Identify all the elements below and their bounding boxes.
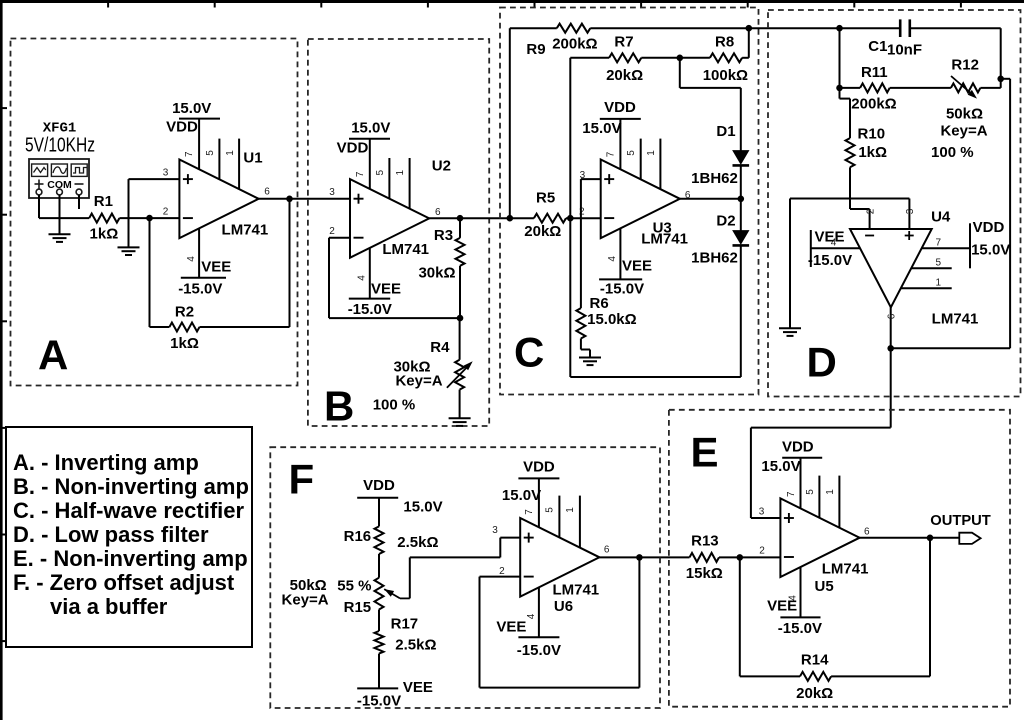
value D1 1BH62 <box>691 170 738 187</box>
svg-text:R8: R8 <box>715 33 734 50</box>
wire XFG1 + to R1 <box>39 217 89 219</box>
svg-text:R2: R2 <box>175 303 194 320</box>
wire R3 to node <box>459 266 461 318</box>
svg-text:2.5kΩ: 2.5kΩ <box>395 637 436 654</box>
svg-text:LM741: LM741 <box>222 222 269 239</box>
pin 1 number U4 <box>936 277 942 288</box>
pin 5 number U6 <box>545 507 556 513</box>
pin 3 number U2 <box>329 187 335 198</box>
svg-text:2: 2 <box>759 546 765 557</box>
VEE symbol U5 <box>780 616 820 618</box>
VDD label R16 <box>363 477 395 494</box>
label U3 LM741 <box>641 231 688 248</box>
U3 pin 4 wire <box>619 228 621 279</box>
value R4 30k&#937; <box>393 359 430 376</box>
svg-text:via a buffer: via a buffer <box>50 594 168 619</box>
value R10 1k&#937; <box>858 144 887 161</box>
U4 pin 7 wire <box>922 247 970 249</box>
wire feedback riser to output <box>289 199 291 327</box>
svg-text:LM741: LM741 <box>382 241 429 258</box>
svg-text:R11: R11 <box>861 64 888 81</box>
junction node R3/R4 <box>457 315 464 322</box>
wire feedback right riser <box>1009 79 1011 349</box>
svg-text:VDD: VDD <box>166 119 198 136</box>
junction node U5 output <box>927 535 934 542</box>
pin 7 number U3 <box>606 151 617 157</box>
svg-text:55 %: 55 % <box>337 577 371 594</box>
wire R1 to U1 pin 2 <box>119 217 179 219</box>
wire U2 feedback bottom <box>329 317 460 319</box>
label R11 <box>861 64 888 81</box>
section label D <box>807 339 837 386</box>
svg-text:5: 5 <box>805 489 816 495</box>
potentiometer R15 <box>375 578 384 610</box>
svg-text:VEE: VEE <box>201 258 231 275</box>
pin 2 number U5 <box>759 546 765 557</box>
U3 pin 7 wire <box>619 119 621 169</box>
label U4 LM741 <box>932 311 979 328</box>
wire R14 to output riser <box>831 675 930 677</box>
svg-text:100 %: 100 % <box>931 144 974 161</box>
svg-text:200kΩ: 200kΩ <box>851 96 896 113</box>
svg-text:1: 1 <box>936 277 942 288</box>
VDD value 15.0V U6 <box>502 487 541 504</box>
U2 pin 7 wire <box>369 139 371 189</box>
section F boundary box <box>270 447 660 708</box>
svg-text:1: 1 <box>565 507 576 513</box>
svg-text:6: 6 <box>435 207 441 218</box>
junction node feedback tap <box>997 76 1004 83</box>
svg-text:VEE: VEE <box>403 679 433 696</box>
svg-text:R15: R15 <box>344 599 372 616</box>
svg-text:D2: D2 <box>716 213 735 230</box>
svg-text:15.0V: 15.0V <box>582 120 621 137</box>
VDD symbol U2 <box>349 138 390 140</box>
wire U4 output to U5 pin 3 <box>751 428 891 518</box>
section D boundary box <box>768 10 1021 397</box>
potentiometer R12 <box>951 83 981 92</box>
wire R8 right riser <box>742 28 749 58</box>
label R12 Key=A <box>940 123 987 140</box>
svg-text:VDD: VDD <box>604 99 636 116</box>
svg-text:R7: R7 <box>614 33 633 50</box>
junction node top right of C <box>746 25 753 32</box>
label U1 <box>243 149 262 166</box>
svg-text:B. - Non-inverting amp: B. - Non-inverting amp <box>13 474 249 499</box>
op-amp U1 <box>179 160 258 239</box>
section label C <box>514 329 544 376</box>
svg-text:1kΩ: 1kΩ <box>170 335 199 352</box>
svg-text:2: 2 <box>865 208 876 214</box>
resistor R3 <box>456 238 465 266</box>
svg-text:30kΩ: 30kΩ <box>418 265 455 282</box>
label R17 <box>391 616 419 633</box>
VEE symbol U1 <box>181 277 226 279</box>
VEE symbol U2 <box>349 298 390 300</box>
label R15 <box>344 599 372 616</box>
wire XFG1 + terminal down <box>38 195 40 218</box>
pin 6 number U6 <box>604 545 610 556</box>
ground U1 pin 3 <box>118 247 140 255</box>
label R15 55 % <box>337 577 371 594</box>
svg-text:4: 4 <box>186 256 197 262</box>
svg-text:3: 3 <box>759 506 765 517</box>
value R13 15k&#937; <box>686 565 723 582</box>
svg-text:200kΩ: 200kΩ <box>552 36 597 53</box>
U6 pin 5 stub <box>558 496 560 538</box>
legend line E. - Non-inverting amp <box>13 546 248 571</box>
svg-text:Key=A: Key=A <box>282 592 329 609</box>
label R10 <box>858 125 886 142</box>
U5 pin 7 wire <box>800 458 802 509</box>
VDD value 15.0V U1 <box>172 100 211 117</box>
wire C1 right to corner <box>910 27 1001 29</box>
resistor R11 <box>860 83 890 92</box>
wire D1 to output node <box>740 166 742 199</box>
resistor R5 <box>534 214 566 223</box>
resistor R9 <box>557 24 591 33</box>
pin 7 number U2 <box>355 171 366 177</box>
svg-text:6: 6 <box>685 190 691 201</box>
wire R11 lead <box>840 87 861 89</box>
pin 3 number U6 <box>492 525 498 536</box>
label U5 <box>815 578 834 595</box>
label R2 <box>175 303 194 320</box>
svg-text:VEE: VEE <box>814 229 844 246</box>
resistor R2 <box>169 323 199 332</box>
svg-text:U5: U5 <box>815 578 834 595</box>
value R6 15.0k&#937; <box>587 311 637 328</box>
svg-text:Key=A: Key=A <box>940 123 987 140</box>
VEE label R17 <box>403 679 433 696</box>
VEE value -15.0V U6 <box>517 642 561 659</box>
junction node U5 pin 2 <box>737 554 744 561</box>
VEE value -15.0V U3 <box>600 281 644 298</box>
wire U2 output <box>429 217 534 219</box>
svg-text:R3: R3 <box>434 227 453 244</box>
junction node U6 output <box>636 554 643 561</box>
svg-text:1: 1 <box>646 150 657 156</box>
svg-text:OUTPUT: OUTPUT <box>930 513 991 529</box>
VDD value 15.0V R16 <box>403 499 442 516</box>
label R8 <box>715 33 734 50</box>
U2 pin 1 stub <box>409 158 411 209</box>
label U5 LM741 <box>822 560 869 577</box>
function generator XFG1 label <box>43 121 77 137</box>
svg-text:LM741: LM741 <box>641 231 688 248</box>
pin 5 number U3 <box>626 150 637 156</box>
wire R16 to R15 <box>378 554 380 578</box>
pin 2 number U6 <box>499 566 505 577</box>
VDD value 15.0V U2 <box>351 120 390 137</box>
svg-text:7: 7 <box>355 171 366 177</box>
wire output riser <box>929 538 931 677</box>
svg-text:VDD: VDD <box>363 477 395 494</box>
wire R4 to ground <box>459 390 461 419</box>
wire feedback down <box>739 557 741 676</box>
value C1 10nF <box>887 41 922 58</box>
wire R7 lead <box>570 57 609 59</box>
wire top net R9 to C1 <box>590 27 900 29</box>
svg-text:2: 2 <box>163 207 169 218</box>
svg-text:U1: U1 <box>243 149 262 166</box>
section label B <box>324 383 354 430</box>
ground XFG1 COM <box>49 234 71 242</box>
wire U1 pin 3 left <box>129 178 180 180</box>
svg-text:6: 6 <box>264 186 270 197</box>
svg-text:7: 7 <box>524 509 535 515</box>
label U3 <box>653 219 672 236</box>
svg-text:VDD: VDD <box>782 438 814 455</box>
section A boundary box <box>11 39 298 386</box>
svg-text:1kΩ: 1kΩ <box>858 144 887 161</box>
svg-text:VEE: VEE <box>622 258 652 275</box>
wire R6 to ground <box>581 339 590 358</box>
wire R15 to R17 <box>378 610 380 632</box>
svg-text:A: A <box>38 332 68 379</box>
wire feedback to R14 <box>740 675 800 677</box>
legend line C. - Half-wave rectifier <box>13 498 245 523</box>
wire pin 3 down to ground <box>128 179 130 247</box>
value R5 20k&#937; <box>524 223 561 240</box>
VEE symbol U6 <box>518 636 559 638</box>
pin 3 number U5 <box>759 506 765 517</box>
svg-text:5: 5 <box>936 257 942 268</box>
VEE label U5 <box>767 598 797 615</box>
svg-text:Key=A: Key=A <box>395 373 442 390</box>
resistor R7 <box>609 53 641 62</box>
wire U6 pin 2 left <box>480 576 521 578</box>
wire U4 pin 3 net <box>790 199 909 230</box>
svg-text:15kΩ: 15kΩ <box>686 565 723 582</box>
svg-text:C. - Half-wave rectifier: C. - Half-wave rectifier <box>13 498 245 523</box>
pin 4 number U1 <box>186 256 197 262</box>
wire pin 3 down to R6 <box>580 179 582 308</box>
value R17 2.5k&#937; <box>395 637 436 654</box>
capacitor C1 <box>900 19 910 37</box>
svg-text:15.0V: 15.0V <box>351 120 390 137</box>
value R9 200k&#937; <box>552 36 597 53</box>
label R14 <box>801 652 829 669</box>
pin 6 number U4 <box>886 313 897 319</box>
function generator XFG1 <box>29 159 89 198</box>
label R3 <box>434 227 453 244</box>
op-amp U3 <box>601 160 680 239</box>
junction node R11 left <box>836 85 843 92</box>
svg-text:4: 4 <box>526 613 537 619</box>
svg-text:B: B <box>324 383 354 430</box>
VDD symbol U6 <box>518 477 559 479</box>
label R9 <box>526 41 545 58</box>
svg-text:R17: R17 <box>391 616 419 633</box>
VEE symbol U3 <box>599 278 642 280</box>
svg-text:4: 4 <box>356 275 367 281</box>
label OUTPUT <box>930 513 991 529</box>
U5 pin 4 wire <box>800 567 802 618</box>
svg-text:R4: R4 <box>430 339 450 356</box>
label U1 LM741 <box>222 222 269 239</box>
wire R17 to VEE <box>378 654 380 689</box>
svg-text:1kΩ: 1kΩ <box>90 225 119 242</box>
VDD label U3 <box>604 99 636 116</box>
svg-text:U4: U4 <box>931 208 951 225</box>
svg-text:3: 3 <box>329 187 335 198</box>
pin 1 number U3 <box>646 150 657 156</box>
VEE symbol U4 <box>810 230 812 267</box>
wire R11 node to R10 <box>840 88 851 138</box>
svg-text:LM741: LM741 <box>932 311 979 328</box>
label R7 <box>614 33 633 50</box>
wire wiper to buffer <box>410 538 520 558</box>
label R13 <box>691 533 719 550</box>
label D2 <box>716 213 735 230</box>
wire feedback tap right <box>1001 78 1010 80</box>
wire R11 to R12 <box>890 87 951 89</box>
op-amp U2 <box>350 179 429 258</box>
value R16 2.5k&#937; <box>397 534 438 551</box>
pin 3 number U1 <box>163 167 169 178</box>
svg-text:7: 7 <box>786 491 797 497</box>
svg-text:F. - Zero offset adjust: F. - Zero offset adjust <box>13 570 235 595</box>
pin 6 number U1 <box>264 186 270 197</box>
wire XFG1 COM down <box>59 195 61 234</box>
junction node U1 output <box>286 196 293 203</box>
svg-text:U2: U2 <box>432 157 451 174</box>
svg-text:LM741: LM741 <box>552 582 599 599</box>
wire wiper up <box>409 557 411 598</box>
pin 1 number U2 <box>395 169 406 175</box>
legend line D. - Low pass filter <box>13 522 209 547</box>
label R1 <box>94 193 113 210</box>
resistor R8 <box>710 53 742 62</box>
pin 6 number U5 <box>864 527 870 538</box>
wire feedback bottom <box>570 376 741 378</box>
XFG1 value label 5V/10KHz <box>25 134 95 156</box>
svg-text:R5: R5 <box>536 190 555 207</box>
svg-text:15.0V: 15.0V <box>403 499 442 516</box>
svg-text:R9: R9 <box>526 41 545 58</box>
resistor R13 <box>690 553 720 562</box>
pin 2 number U1 <box>163 207 169 218</box>
U1 pin 5 stub <box>218 139 220 180</box>
wire U3 pin 3 left <box>581 178 601 180</box>
VEE label U4 <box>814 229 844 246</box>
VEE value -15.0V U5 <box>778 620 822 637</box>
svg-text:-15.0V: -15.0V <box>357 692 401 709</box>
wire U1 output to section B <box>259 198 350 200</box>
wire R13 input from F <box>639 556 689 558</box>
wire R10 to U4 pin 2 <box>850 167 870 229</box>
U6 pin 1 stub <box>579 496 581 548</box>
wire D2 down <box>740 245 742 377</box>
svg-text:1: 1 <box>395 169 406 175</box>
svg-text:C: C <box>514 329 544 376</box>
junction node at R1 / feedback <box>146 215 153 222</box>
U1 pin 7 wire <box>198 119 200 170</box>
svg-text:-15.0V: -15.0V <box>808 252 852 269</box>
wire U2 pin 2 down <box>328 238 330 318</box>
svg-text:R1: R1 <box>94 193 113 210</box>
wire VDD to R16 <box>378 498 380 527</box>
VEE value -15.0V U4 <box>808 252 852 269</box>
legend line F. - Zero offset adjust <box>13 570 235 595</box>
resistor R16 <box>375 526 384 554</box>
pin 2 number U4 <box>865 208 876 214</box>
U1 pin 1 stub <box>238 139 240 190</box>
svg-text:VDD: VDD <box>337 139 369 156</box>
legend line B. - Non-inverting amp <box>13 474 249 499</box>
R4 wiper arrow <box>447 361 473 387</box>
svg-text:R10: R10 <box>858 125 886 142</box>
U3 pin 1 stub <box>659 139 661 190</box>
svg-text:VDD: VDD <box>973 219 1005 236</box>
op-amp U5 <box>780 498 859 577</box>
VDD label U1 <box>166 119 198 136</box>
svg-text:R14: R14 <box>801 652 829 669</box>
legend box <box>6 427 252 647</box>
svg-text:VEE: VEE <box>767 598 797 615</box>
junction node U3 pin 2 <box>567 215 574 222</box>
VEE symbol R17 <box>357 687 398 689</box>
svg-text:1BH62: 1BH62 <box>691 249 738 266</box>
svg-text:3: 3 <box>905 208 916 214</box>
pin 5 number U1 <box>205 150 216 156</box>
wire feedback down from R1 node <box>149 218 151 327</box>
R15 wiper arrow <box>384 589 410 598</box>
wire U5 output <box>860 537 960 539</box>
svg-text:2.5kΩ: 2.5kΩ <box>397 534 438 551</box>
wire R9 left riser <box>509 28 511 218</box>
svg-text:7: 7 <box>184 151 195 157</box>
VEE value -15.0V U2 <box>348 301 392 318</box>
wire feedback bottom to output node <box>891 347 1010 349</box>
pin 6 number U3 <box>685 190 691 201</box>
value R3 30k&#937; <box>418 265 455 282</box>
svg-text:-15.0V: -15.0V <box>178 280 222 297</box>
resistor R6 <box>576 308 585 338</box>
svg-text:R16: R16 <box>344 528 372 545</box>
svg-text:E. - Non-inverting amp: E. - Non-inverting amp <box>13 546 248 571</box>
wire R9 top lead <box>510 27 557 29</box>
pin 3 number U3 <box>580 170 586 181</box>
pin 4 number U4 <box>831 237 837 248</box>
wire U6 feedback <box>480 557 640 687</box>
pin 4 number U2 <box>356 275 367 281</box>
op-amp U6 <box>520 518 599 597</box>
junction node C1 left <box>836 25 843 32</box>
wire XFG1 - stub <box>78 195 80 209</box>
svg-text:20kΩ: 20kΩ <box>524 223 561 240</box>
value D2 1BH62 <box>691 249 738 266</box>
resistor R17 <box>375 631 384 654</box>
wire R7 to node <box>641 57 680 59</box>
section B boundary box <box>308 39 489 426</box>
label R16 <box>344 528 372 545</box>
svg-text:6: 6 <box>886 313 897 319</box>
VDD label U6 <box>523 459 555 476</box>
wire U2 pin 2 left <box>329 237 350 239</box>
VDD value 15.0V U3 <box>582 120 621 137</box>
svg-text:5V/10KHz: 5V/10KHz <box>25 134 95 156</box>
svg-text:E: E <box>691 429 719 476</box>
svg-text:C1: C1 <box>868 38 887 55</box>
svg-text:1BH62: 1BH62 <box>691 170 738 187</box>
section C boundary box <box>500 8 759 395</box>
svg-text:100 %: 100 % <box>373 397 416 414</box>
wire R5 to U3 pin 2 <box>566 217 601 219</box>
VEE value -15.0V U1 <box>178 280 222 297</box>
R12 wiper arrow <box>951 76 977 99</box>
